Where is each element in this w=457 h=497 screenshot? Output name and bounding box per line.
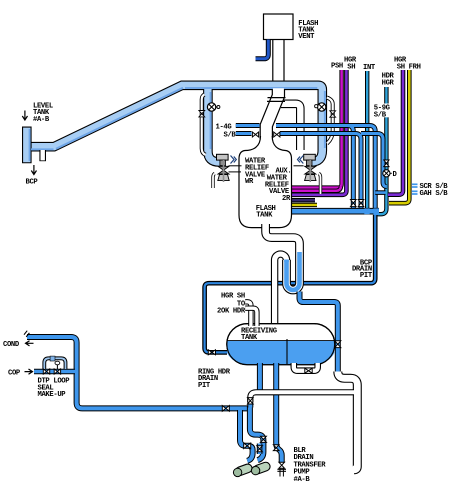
valve pipe B hourglass <box>273 445 279 451</box>
pipe COND make-up run <box>27 337 247 408</box>
wire left relief drip stub <box>213 174 215 189</box>
pipe main level-tank run (wide light blue) <box>27 85 323 162</box>
node magenta second relief line <box>292 187 341 191</box>
svg-text:#A-B: #A-B <box>294 476 311 484</box>
legend SCR S/B tick <box>412 184 418 187</box>
pipe drain open end stub <box>280 467 284 477</box>
pump P1 <box>233 463 253 477</box>
valve COP globe with stem <box>54 361 60 374</box>
svg-text:VENT: VENT <box>298 33 315 41</box>
valve discharge line hourglass <box>335 341 341 348</box>
svg-text:HGR: HGR <box>382 80 395 88</box>
node DTP loop top dot <box>50 356 55 361</box>
svg-text:SH: SH <box>347 64 355 72</box>
flash tank neck pipe <box>266 88 278 139</box>
pipe drain header (blue horizontal) <box>292 208 379 215</box>
pipe S/B right run with drops <box>280 134 387 212</box>
valve COP bowtie <box>43 369 49 374</box>
bypass pipe around right MOV <box>327 98 333 144</box>
vent box blue drain stub <box>256 40 269 59</box>
wire right relief drip stub <box>319 174 321 195</box>
svg-text:MAKE-UP: MAKE-UP <box>38 391 67 399</box>
valve make-up header bowtie <box>222 406 229 412</box>
node COND arrow <box>26 341 34 346</box>
pipe tank bottom U with valve <box>294 363 318 371</box>
pump P2 <box>251 461 271 475</box>
receiving tank <box>227 324 335 365</box>
pipe 2OK HDR stub 2 <box>245 308 257 326</box>
pipe center stub between pumps <box>257 444 263 455</box>
svg-text:PIT: PIT <box>360 272 373 280</box>
svg-text:INT: INT <box>363 64 376 72</box>
node header junction A <box>364 208 369 214</box>
svg-text:PSH: PSH <box>331 63 343 71</box>
pipe suction valve riser (above header) <box>247 399 253 408</box>
valve drain end hourglass <box>279 462 285 468</box>
pipe loop seal overflow to discharge (blue) <box>300 292 338 375</box>
node COND break symbol <box>24 331 29 337</box>
node PSH SH line (magenta) <box>292 70 342 188</box>
svg-text:WR: WR <box>245 178 254 186</box>
pipe S/B left segment <box>236 131 252 136</box>
pipe tank outlet B to drain <box>276 363 282 463</box>
BCP outlet stub <box>39 150 46 161</box>
valve water relief valve WR body <box>218 160 229 182</box>
valve bypass hourglass right <box>330 111 336 117</box>
valve s/b line 2 hourglass <box>358 200 364 207</box>
wire F lower prong <box>375 190 385 195</box>
node HGR SH line left (purple) <box>292 70 346 195</box>
svg-text:2R: 2R <box>282 195 291 203</box>
svg-text:1-4G: 1-4G <box>216 124 232 132</box>
valve 5-9G MOV <box>383 170 392 177</box>
flash tank vent pipe <box>272 40 284 99</box>
pipe 1-4G right run with drops <box>276 126 375 212</box>
pipe 1-4G left segment <box>236 123 260 128</box>
wire left relief outlet lines <box>229 166 242 172</box>
valve tank bottom bowtie <box>305 368 312 373</box>
node COP arrow <box>25 369 33 374</box>
node header junction B <box>373 208 379 215</box>
svg-text:GAH S/B: GAH S/B <box>420 190 449 198</box>
flash tank vessel <box>239 136 292 228</box>
svg-text:BCP: BCP <box>26 179 39 187</box>
valve aux water relief valve 2R body <box>305 160 316 182</box>
pipe loop seal arch + outer leg <box>275 254 287 326</box>
svg-text:2OK HDR: 2OK HDR <box>217 308 246 316</box>
node FRH line (yellow) <box>389 70 409 203</box>
pipe DTP loop bypass arc <box>44 358 65 369</box>
valve 5-9G hourglass <box>384 160 389 167</box>
node right chevrons <box>298 156 304 164</box>
pipe branch to left water relief valve (wide light blue) <box>208 88 223 162</box>
valve center stub hourglass <box>257 446 263 452</box>
valve S/B bowtie right <box>274 132 280 137</box>
svg-text:SH FRH: SH FRH <box>397 64 421 72</box>
pipe BCP drain pit run (white with blue edge) <box>205 215 376 353</box>
svg-text:COP: COP <box>8 369 21 377</box>
pipe shading stripes <box>30 88 325 161</box>
node INT line (teal) <box>365 71 369 212</box>
svg-text:S/B: S/B <box>224 132 237 140</box>
pipe level tank riser (wide light blue vertical left) <box>22 127 32 164</box>
pipe COP inlet <box>34 369 75 374</box>
node yellow stub line <box>292 203 317 207</box>
valve s/b line 1 hourglass <box>351 200 357 207</box>
legend GAH S/B tick <box>412 191 418 194</box>
pipe make-up drop to pump manifold (v2) <box>250 406 264 461</box>
node level tank arrow <box>22 111 27 121</box>
valve actuator right (gray box) <box>304 154 316 165</box>
svg-text:#A-B: #A-B <box>33 116 50 124</box>
valve v2 hourglass <box>260 436 266 442</box>
pipe tank outlet A <box>257 363 263 390</box>
valve v1 bowtie <box>244 443 251 449</box>
node BCP arrow <box>31 165 36 175</box>
pipe 2OK HDR stub 1 <box>245 302 251 326</box>
svg-text:PIT: PIT <box>198 382 211 390</box>
bypass pipe around left MOV <box>202 95 206 155</box>
pipe flash tank outlet + drain with U seal <box>266 224 300 290</box>
svg-text:TANK: TANK <box>256 212 273 220</box>
node left chevrons <box>231 156 237 164</box>
valve ring hdr bowtie <box>208 350 215 355</box>
node HDR HGR / 5-9G S/B line (teal right) <box>377 87 387 214</box>
wire right relief outlet lines <box>294 165 304 167</box>
node HGR SH right line (purple) <box>388 70 403 195</box>
pipe discharge loop (white, right side) <box>338 372 358 470</box>
valve MOV right top <box>315 103 326 111</box>
vent pipe flange <box>267 98 286 102</box>
pipe v1 to pump 1 <box>240 410 253 461</box>
valve MOV left top <box>207 103 219 111</box>
wire vent Y-branch white pipe <box>281 104 300 150</box>
svg-text:TANK: TANK <box>241 334 258 342</box>
valve actuator left (gray box) <box>217 154 229 165</box>
node drain end break symbol <box>277 469 286 471</box>
svg-text:S/B: S/B <box>374 112 387 120</box>
flash tank vent box <box>264 14 294 40</box>
node navy stub line <box>292 198 315 202</box>
valve S/B bowtie left <box>252 132 258 137</box>
label HDR HGR <box>380 71 395 86</box>
label 5-9G S/B <box>373 104 391 118</box>
pipe pump suction header (white horizontal) <box>250 392 354 402</box>
valve bypass hourglass left <box>199 111 205 117</box>
valve suction riser bowtie <box>248 398 254 404</box>
svg-text:COND: COND <box>3 341 20 349</box>
valve symbols <box>43 103 392 468</box>
